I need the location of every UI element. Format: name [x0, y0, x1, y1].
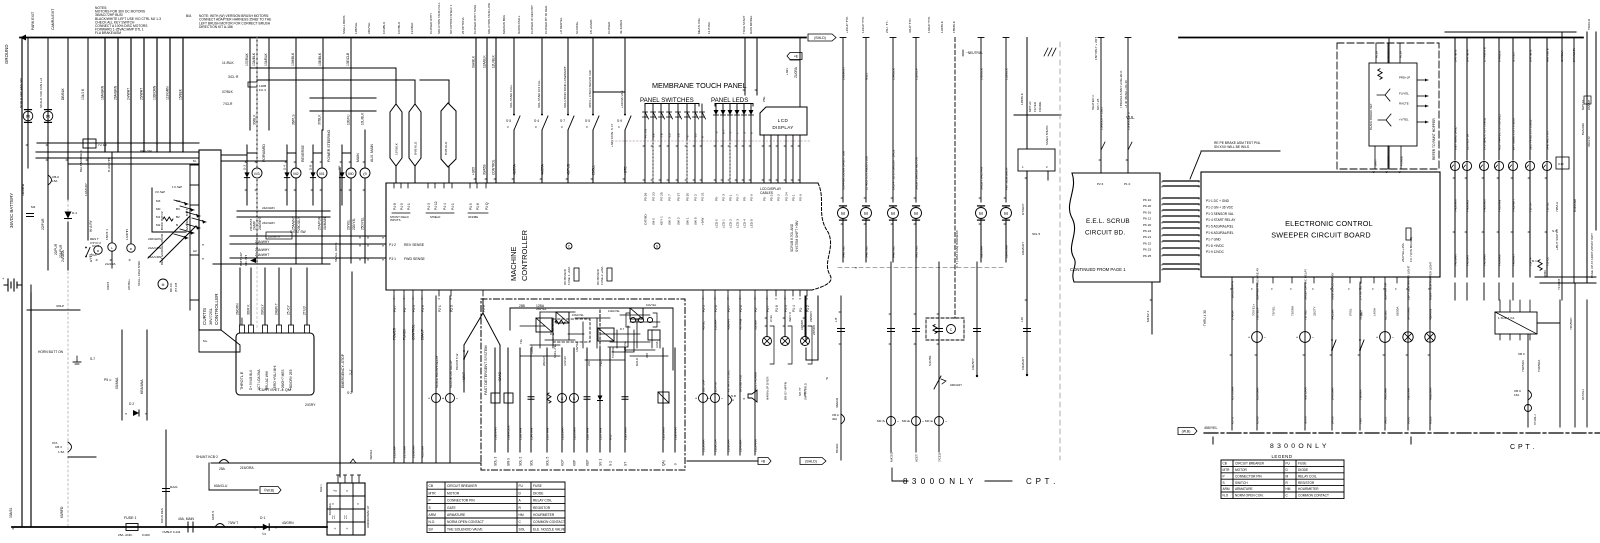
- svg-text:P1·7/6: P1·7/6: [644, 129, 648, 138]
- svg-text:15A/TAN: 15A/TAN: [530, 428, 534, 440]
- svg-text:BELT MARKED: BELT MARKED: [79, 150, 83, 172]
- svg-text:ST·: ST·: [624, 461, 628, 466]
- svg-text:«: «: [1198, 268, 1200, 272]
- svg-text:34E/YEL: 34E/YEL: [842, 246, 846, 258]
- bottom bus wire: [12, 526, 327, 528]
- svg-text:PAGE UP AT ARD/T+5PI/AY INPT: PAGE UP AT ARD/T+5PI/AY INPT: [1590, 233, 1594, 278]
- scale brush relay coil: [432, 394, 441, 403]
- svg-text:25A/WHY: 25A/WHY: [292, 215, 296, 230]
- svg-text:KRA/ANA: KRA/ANA: [140, 379, 144, 394]
- svg-text:S4AE3 SHUTR: S4AE3 SHUTR: [1045, 125, 1049, 145]
- svg-text:PS·2: PS·2: [777, 194, 781, 201]
- lcd wire 2: [770, 135, 772, 183]
- svg-text:M1: M1: [156, 215, 161, 219]
- svg-text:REFER TO PAINT HOPPER: REFER TO PAINT HOPPER: [1432, 118, 1436, 160]
- svg-text:P1·6 ADJ/RAL/REL: P1·6 ADJ/RAL/REL: [1206, 231, 1234, 235]
- svg-text:+V/TEL: +V/TEL: [1399, 118, 1409, 122]
- V merge wires: [482, 299, 484, 313]
- svg-text:240/WHT: 240/WHT: [258, 216, 262, 230]
- svg-text:P2·1: P2·1: [438, 305, 442, 312]
- svg-text:60A/CLU: 60A/CLU: [214, 484, 228, 488]
- svg-text:SH·TT: SH·TT: [798, 387, 802, 396]
- wire below coil (9): [364, 178, 366, 263]
- breaker KCB-2: [219, 460, 229, 464]
- wire below motor: [892, 219, 894, 262]
- detergent wire 12E/TAN: [586, 348, 588, 452]
- top bus wire: [20, 37, 806, 39]
- svg-text:13N/BLK + 13E1: 13N/BLK + 13E1: [1100, 107, 1104, 130]
- svg-text:21N/0RA: 21N/0RA: [412, 445, 416, 458]
- svg-text:+BD/ORY 2E5: +BD/ORY 2E5: [289, 369, 293, 390]
- svg-text:«: «: [1347, 288, 1351, 290]
- sensor wire ISA/BLK: [475, 38, 477, 184]
- svg-text:PS·24: PS·24: [785, 192, 789, 201]
- svg-text:M6T/2·1: M6T/2·1: [1146, 310, 1150, 322]
- dashed mid divider: [599, 310, 601, 357]
- svg-text:26A/GRN: 26A/GRN: [114, 85, 118, 100]
- svg-text:137/BLK: 137/BLK: [245, 53, 249, 66]
- wire to diode D·3: [246, 153, 248, 205]
- svg-text:B2: B2: [176, 215, 180, 219]
- svg-text:745/0RN: 745/0RN: [1498, 200, 1502, 212]
- wire 60A/BLU: [209, 489, 258, 491]
- svg-text:72B/LU: 72B/LU: [1555, 202, 1559, 212]
- svg-text:2–7: 2–7: [349, 369, 353, 375]
- svg-text:SWEEPER CIRCUIT BOARD: SWEEPER CIRCUIT BOARD: [1271, 231, 1371, 240]
- svg-text:26/GRN: 26/GRN: [236, 303, 240, 315]
- board link wire 8: [1163, 227, 1199, 229]
- svg-text:B4Y/W E: B4Y/W E: [1529, 50, 1533, 63]
- svg-text:ARM/MAIN/AC A7: ARM/MAIN/AC A7: [366, 505, 370, 528]
- svg-text:15A: 15A: [52, 179, 58, 183]
- svg-text:«: «: [1161, 221, 1163, 225]
- wire pair 24/5RH: [805, 296, 807, 341]
- shaker pin 2 stub: [1047, 171, 1049, 180]
- svg-text:HEATED U·: HEATED U·: [1091, 94, 1095, 110]
- wire 04D/GRY right: [1026, 262, 1028, 375]
- long vertical B+ wire: [339, 168, 341, 477]
- wires to throttle pins: [239, 268, 241, 325]
- diode D·4: [284, 172, 289, 177]
- svg-text:2/GRY: 2/GRY: [305, 403, 316, 407]
- fuse FUSE-1: [126, 524, 138, 531]
- svg-text:«: «: [1198, 197, 1200, 201]
- svg-text:P6·10: P6·10: [1143, 198, 1152, 202]
- svg-text:15A: 15A: [1514, 393, 1519, 397]
- svg-text:R15·T 4F+D L TS T (07001): R15·T 4F+D L TS T (07001): [1498, 114, 1502, 150]
- svg-text:M1: M1: [319, 172, 324, 176]
- svg-text:«: «: [1161, 203, 1163, 207]
- sensor wire +AC/3A VAR lower: [624, 130, 626, 183]
- svg-text:P1·2 GN + 36 VDC: P1·2 GN + 36 VDC: [1206, 205, 1234, 209]
- svg-text:P5 ═: P5 ═: [104, 378, 112, 382]
- relay M0 2: [912, 417, 921, 426]
- wire below lamp: [1483, 171, 1485, 277]
- led L3: [728, 110, 733, 115]
- board link wire 14: [1163, 268, 1199, 270]
- svg-text:«: «: [1198, 221, 1200, 225]
- svg-text:PANEL SWITCHES: PANEL SWITCHES: [640, 97, 694, 104]
- svg-text:RAIN MODEL: RAIN MODEL: [749, 15, 753, 34]
- svg-text:P5·1: P5·1: [729, 194, 733, 201]
- svg-text:MOT+R: MOT+R: [1028, 102, 1032, 112]
- wire 24/GRA: [67, 222, 69, 270]
- svg-text:22A/PUR: 22A/PUR: [59, 244, 63, 258]
- relay K-A: [536, 318, 552, 332]
- svg-text:CB: CB: [429, 484, 434, 488]
- throttle top pins: [240, 325, 245, 333]
- svg-text:FLA BRAKE/ASM: FLA BRAKE/ASM: [95, 31, 121, 35]
- callout diagonal: [1190, 152, 1201, 179]
- svg-text:SCALE BRUSH RELAY: SCALE BRUSH RELAY: [435, 356, 439, 388]
- svg-text:RD· BIT: RD· BIT: [244, 255, 248, 266]
- svg-text:M: M: [162, 283, 165, 287]
- svg-text:P1·8 +5VDC: P1·8 +5VDC: [1206, 244, 1225, 248]
- wire below motor: [842, 219, 844, 262]
- svg-text:«: «: [1161, 197, 1163, 201]
- svg-text:BR.5: BR.5: [803, 389, 807, 396]
- svg-text:C: C: [535, 125, 537, 129]
- svg-text:34C/5R: 34C/5R: [1331, 309, 1335, 320]
- vertical 1587: [1586, 32, 1588, 283]
- svg-text:21P/0RA: 21P/0RA: [739, 439, 743, 452]
- wire I2Y/2LY: [1512, 38, 1514, 161]
- svg-text:·2: ·2: [686, 135, 690, 138]
- svg-text:MOTOR: MOTOR: [1235, 468, 1248, 472]
- relay circle C9: [1525, 405, 1532, 412]
- svg-text:RA21: RA21: [170, 485, 178, 489]
- svg-text:84Y/0RG: 84Y/0RG: [1407, 307, 1411, 320]
- cluster ties: [540, 311, 575, 313]
- svg-text:RIGHT SIDE RUPPER LIGHT: RIGHT SIDE RUPPER LIGHT: [1429, 262, 1433, 300]
- svg-text:2/·EL: 2/·EL: [769, 314, 773, 322]
- svg-text:FU: FU: [1286, 462, 1291, 466]
- kcb5: [215, 524, 225, 528]
- svg-text:P6·24: P6·24: [1143, 229, 1152, 233]
- svg-text:S·EAT SW: S·EAT SW: [290, 230, 307, 234]
- right collect lines: [1535, 276, 1596, 278]
- svg-text:P5·27: P5·27: [677, 192, 681, 201]
- svg-text:27A/PUR: 27A/PUR: [318, 216, 322, 230]
- svg-text:74B/0R5: 74B/0R5: [1466, 254, 1470, 266]
- svg-text:SPE TA L T HT: SPE TA L T HT: [1546, 131, 1550, 150]
- relay coil e5: [711, 394, 720, 403]
- svg-text:46/AVIN: 46/AVIN: [1429, 309, 1433, 320]
- svg-text:DY4/WH E: DY4/WH E: [1483, 47, 1487, 62]
- svg-text:SHIELD: SHIELD: [430, 215, 440, 219]
- svg-text:1BE/TAN: 1BE/TAN: [674, 427, 678, 440]
- svg-text:SACEY DR VAC RELAY: SACEY DR VAC RELAY: [1304, 269, 1308, 300]
- wire 215/0RP: [393, 296, 395, 463]
- svg-text:A6A/MT: A6A/MT: [1587, 99, 1591, 110]
- svg-text:142/BLK: 142/BLK: [940, 20, 944, 33]
- svg-text:LCD: LCD: [778, 118, 789, 123]
- svg-text:NORM.OPEN CONTACT: NORM.OPEN CONTACT: [447, 520, 484, 524]
- svg-text:I/CET: I/CET: [915, 454, 919, 462]
- wire 46/AVIN: [1429, 283, 1431, 430]
- wire 13H/BLK: [295, 38, 297, 131]
- solenoid circle 2: [570, 394, 579, 403]
- tie wire y164: [68, 163, 199, 165]
- svg-text:LCD·0: LCD·0: [715, 219, 719, 228]
- svg-text:FUSE·1: FUSE·1: [124, 516, 137, 520]
- panel led wire 5: [743, 104, 745, 183]
- svg-text:32/2TY: 32/2TY: [1313, 306, 1317, 316]
- svg-text:POWER: POWER: [1387, 156, 1391, 166]
- svg-text:84/7: 84/7: [1360, 310, 1364, 316]
- svg-text:P3·1: P3·1: [389, 257, 396, 261]
- svg-text:©W.B): ©W.B): [264, 489, 274, 493]
- svg-text:40/·EL: 40/·EL: [702, 321, 706, 330]
- svg-text:342/5R9: 342/5R9: [1384, 388, 1388, 400]
- svg-text:H6T/0RA: H6T/0RA: [1304, 386, 1308, 400]
- svg-text:P1·5: P1·5: [469, 203, 473, 210]
- wire under EEL M6T: [1151, 282, 1153, 334]
- svg-text:VUL: VUL: [1126, 115, 1135, 120]
- svg-text:WET HEAD LAND: WET HEAD LAND: [1454, 127, 1458, 150]
- svg-text:U12: U12: [1558, 162, 1564, 166]
- svg-text:SOL.TANK 103 FUL·: SOL.TANK 103 FUL·: [537, 79, 541, 108]
- svg-text:PS·3: PS·3: [722, 194, 726, 201]
- net label WB: [1178, 428, 1197, 435]
- svg-text:P1·8: P1·8: [775, 305, 779, 312]
- svg-text:S: S: [1223, 481, 1225, 485]
- wire B out: [687, 460, 758, 462]
- svg-text:CONNECTOR PIN: CONNECTOR PIN: [447, 499, 475, 503]
- svg-text:BAT/NEG: BAT/NEG: [328, 503, 332, 515]
- tilt switch: [934, 376, 941, 389]
- svg-text:©4: ©4: [262, 532, 266, 536]
- wire B4Y/W E: [1454, 38, 1456, 161]
- wire right col a: [1574, 283, 1576, 427]
- svg-text:P5·1: P5·1: [792, 194, 796, 201]
- svg-text:HOURMETER: HOURMETER: [1298, 487, 1319, 491]
- svg-text:«: «: [1161, 263, 1163, 267]
- node top-bus start arrow: [20, 35, 26, 41]
- svg-text:85/ANA: 85/ANA: [115, 377, 119, 389]
- svg-text:FU/YEL: FU/YEL: [1399, 92, 1409, 96]
- wire stub above POWER STEERING: [312, 145, 314, 153]
- svg-text:«: «: [1198, 203, 1200, 207]
- svg-text:S4C/5R·: S4C/5R·: [928, 355, 932, 366]
- svg-text:B: B: [176, 223, 178, 227]
- svg-text:E5 P.NT: E5 P.NT: [714, 381, 718, 392]
- board link wire 4: [1163, 203, 1199, 205]
- svg-text:B47/0RA: B47/0RA: [1331, 387, 1335, 400]
- diode D·3: [244, 172, 249, 177]
- wire below lamp: [1546, 171, 1548, 277]
- bracket 3K338E: [468, 212, 488, 214]
- wire 13D/ORN: [156, 38, 158, 153]
- diode RP: [339, 172, 344, 177]
- svg-text:8 3 0 0 O N L Y: 8 3 0 0 O N L Y: [1270, 443, 1327, 450]
- svg-text:SCRUB FAV RELAY: SCRUB FAV RELAY: [449, 360, 453, 388]
- svg-text:P2·3: P2·3: [450, 305, 454, 312]
- detergent wire 18D/TAN: [624, 348, 626, 452]
- svg-text:25D/YEL: 25D/YEL: [361, 217, 365, 230]
- field winding lozenge left: [390, 104, 402, 166]
- wire to diode D·B: [312, 153, 314, 205]
- svg-text:·A: ·A: [731, 398, 734, 402]
- svg-text:HI·A·RY: HI·A·RY: [89, 219, 93, 232]
- svg-text:LCD·2: LCD·2: [729, 219, 733, 228]
- wire below coil M3: [256, 178, 258, 263]
- svg-text:THE SOLENOID VALVE: THE SOLENOID VALVE: [447, 527, 483, 531]
- square component 1: [491, 393, 500, 403]
- svg-text:M2: M2: [176, 199, 181, 203]
- svg-text:24A: 24A: [587, 361, 591, 366]
- svg-text:26A/YEL+15A: 26A/YEL+15A: [1401, 243, 1405, 262]
- wire scale brush relay: [435, 296, 437, 463]
- svg-text:P6·23: P6·23: [1143, 248, 1152, 252]
- svg-text:12U/BLK: 12U/BLK: [492, 54, 496, 68]
- svg-text:1BEA/5LN: 1BEA/5LN: [507, 426, 511, 440]
- svg-text:0 5YO 2: 0 5YO 2: [90, 241, 101, 245]
- svg-text:72/YEL·: 72/YEL·: [1272, 305, 1276, 316]
- svg-text:·7: ·7: [729, 131, 733, 134]
- svg-text:12D/TAN: 12D/TAN: [662, 428, 666, 440]
- svg-text:M2: M2: [293, 172, 298, 176]
- switch mark: [1101, 142, 1105, 150]
- switch S·4 SOL.TANK 103 FUL·: [542, 116, 548, 130]
- block SHAKER MOTOR: [1018, 149, 1055, 171]
- relay coil RES: [94, 246, 102, 254]
- svg-text:ARM: ARM: [1223, 487, 1230, 491]
- svg-text:ARMATURE: ARMATURE: [1235, 487, 1253, 491]
- svg-text:EMERGENCY–STOP: EMERGENCY–STOP: [341, 353, 345, 388]
- wire 215/ORA run: [211, 462, 481, 464]
- wire 134/BLK: [892, 38, 894, 203]
- divider line above shaker: [1014, 114, 1061, 116]
- svg-text:134/BLK: 134/BLK: [892, 67, 896, 80]
- indicator lamp 3D/WIT: [781, 337, 790, 346]
- diode D-1: [263, 524, 269, 530]
- svg-text:P6·25: P6·25: [1143, 254, 1152, 258]
- ripple mark: [350, 459, 356, 463]
- wire 134/BLK: [87, 38, 89, 241]
- right upper bus wire: [1445, 31, 1576, 33]
- svg-text:«: «: [1394, 288, 1398, 290]
- wire below lamp: [1512, 171, 1514, 277]
- svg-text:LEFT SIDE RAPER LIGHT: LEFT SIDE RAPER LIGHT: [1407, 265, 1411, 300]
- board link wire 5: [1163, 209, 1199, 211]
- svg-text:3: 3: [743, 132, 747, 134]
- svg-text:PS·9: PS·9: [799, 194, 803, 201]
- bracket around lamp: [770, 326, 774, 364]
- svg-text:P1·: P1·: [799, 307, 803, 312]
- wire k12 right: [1537, 322, 1560, 324]
- svg-text:12 P4NA: 12 P4NA: [707, 22, 711, 34]
- curtis pin stubs left: [190, 164, 199, 166]
- svg-text:197/BLK: 197/BLK: [395, 142, 399, 155]
- net label WB left: [260, 487, 281, 494]
- controller bottom pins right: [702, 290, 704, 296]
- wire 152/BLF: [915, 38, 917, 203]
- dashed harness wire: [954, 38, 956, 319]
- res cluster: [555, 320, 565, 324]
- svg-text:CAT/8D: CAT/8D: [644, 214, 648, 225]
- svg-text:D+ 5YUB BLK: D+ 5YUB BLK: [249, 369, 253, 390]
- lcd wire 4: [785, 135, 787, 183]
- indicator lamp 4D/·I2: [763, 337, 772, 346]
- svg-text:KEP: KEP: [586, 460, 590, 466]
- wire 142/BLK: [980, 38, 982, 203]
- wire below motor: [915, 219, 917, 262]
- svg-text:NO OPTION SHELF 1: NO OPTION SHELF 1: [449, 4, 453, 34]
- svg-text:T4B/AMY: T4B/AMY: [1512, 254, 1516, 266]
- svg-text:NOM P VAC FAN (W): NOM P VAC FAN (W): [19, 78, 23, 108]
- svg-text:43/GRN: 43/GRN: [282, 521, 294, 525]
- svg-text:B·7: B·7: [722, 129, 726, 134]
- svg-text:N.O: N.O: [1223, 494, 1229, 498]
- block N.C dashed: [926, 318, 964, 340]
- svg-text:M: M: [46, 114, 50, 119]
- wire below LEF: [111, 251, 113, 268]
- svg-text:1B +DARK: 1B +DARK: [589, 20, 593, 34]
- detergent wire 1B7/TAN: [546, 348, 548, 452]
- svg-text:1BE/TAN: 1BE/TAN: [494, 427, 498, 440]
- svg-text:B·A/O·HH: B·A/O·HH: [107, 158, 111, 172]
- svg-text:BC/ED: BC/ED: [835, 443, 839, 453]
- svg-text:SOL: SOL: [530, 459, 534, 466]
- svg-text:PET SIDE BRLA·: PET SIDE BRLA·: [1005, 167, 1009, 190]
- tick mid: [1410, 437, 1412, 444]
- svg-text:SW·9: SW·9: [507, 458, 511, 466]
- svg-text:3PC4 + CTEN SERVO VAC: 3PC4 + CTEN SERVO VAC: [588, 69, 592, 108]
- wire 04E/5TY: [976, 262, 978, 376]
- svg-text:9: 9: [701, 136, 705, 138]
- grey dotted divider: [612, 140, 810, 142]
- svg-text:30A/51: 30A/51: [9, 507, 13, 518]
- nba: [728, 395, 732, 405]
- svg-text:«: «: [1198, 209, 1200, 213]
- led L6: [749, 110, 754, 115]
- svg-text:732/5D4: 732/5D4: [1521, 360, 1525, 372]
- svg-text:QA): QA): [662, 460, 666, 466]
- svg-text:D·7: D·7: [620, 327, 625, 331]
- emergency stop wire: [351, 272, 353, 392]
- svg-text:SW·2: SW·2: [677, 217, 681, 225]
- svg-text:COMMON CONTACT: COMMON CONTACT: [533, 520, 565, 524]
- svg-text:·20: ·20: [694, 133, 698, 138]
- motor SACEY VAC FAN: [976, 208, 987, 219]
- svg-text:RESISTOR: RESISTOR: [1298, 481, 1315, 485]
- board link wire 2: [1163, 185, 1199, 187]
- svg-text:B47/0: B47/0: [1331, 416, 1335, 424]
- svg-text:3E 3ARES: 3E 3ARES: [619, 20, 623, 34]
- board link wire 13: [1163, 263, 1199, 265]
- svg-text:N.[1]: N.[1]: [865, 73, 869, 80]
- wire below lamp: [1529, 171, 1531, 277]
- svg-text:MAIN: MAIN: [356, 153, 360, 162]
- grey dash link under motors: [838, 267, 1006, 269]
- svg-text:(W.B): (W.B): [1182, 430, 1191, 434]
- motor 1L 40CH LTL A0DB·1 200: [861, 208, 872, 219]
- elbow POWER STEERING: [313, 152, 322, 154]
- svg-text:REGISTOR: REGISTOR: [533, 506, 551, 510]
- svg-text:MAY 63: MAY 63: [1581, 100, 1585, 110]
- svg-text:CONTINUED FROM PAGE 1: CONTINUED FROM PAGE 1: [1070, 267, 1126, 272]
- elbow REVERSE: [287, 152, 296, 154]
- netE: [787, 53, 802, 60]
- svg-text:3 K.5aP: 3 K.5aP: [155, 190, 165, 194]
- svg-text:7+/ M0: 7+/ M0: [98, 143, 107, 147]
- wire run y80: [257, 79, 415, 81]
- contact M0 1: [936, 328, 943, 330]
- wire lozenge left down: [395, 166, 397, 183]
- svg-text:1·SUP T·CA: 1·SUP T·CA: [1498, 316, 1514, 320]
- svg-text:142/BLK: 142/BLK: [980, 67, 984, 80]
